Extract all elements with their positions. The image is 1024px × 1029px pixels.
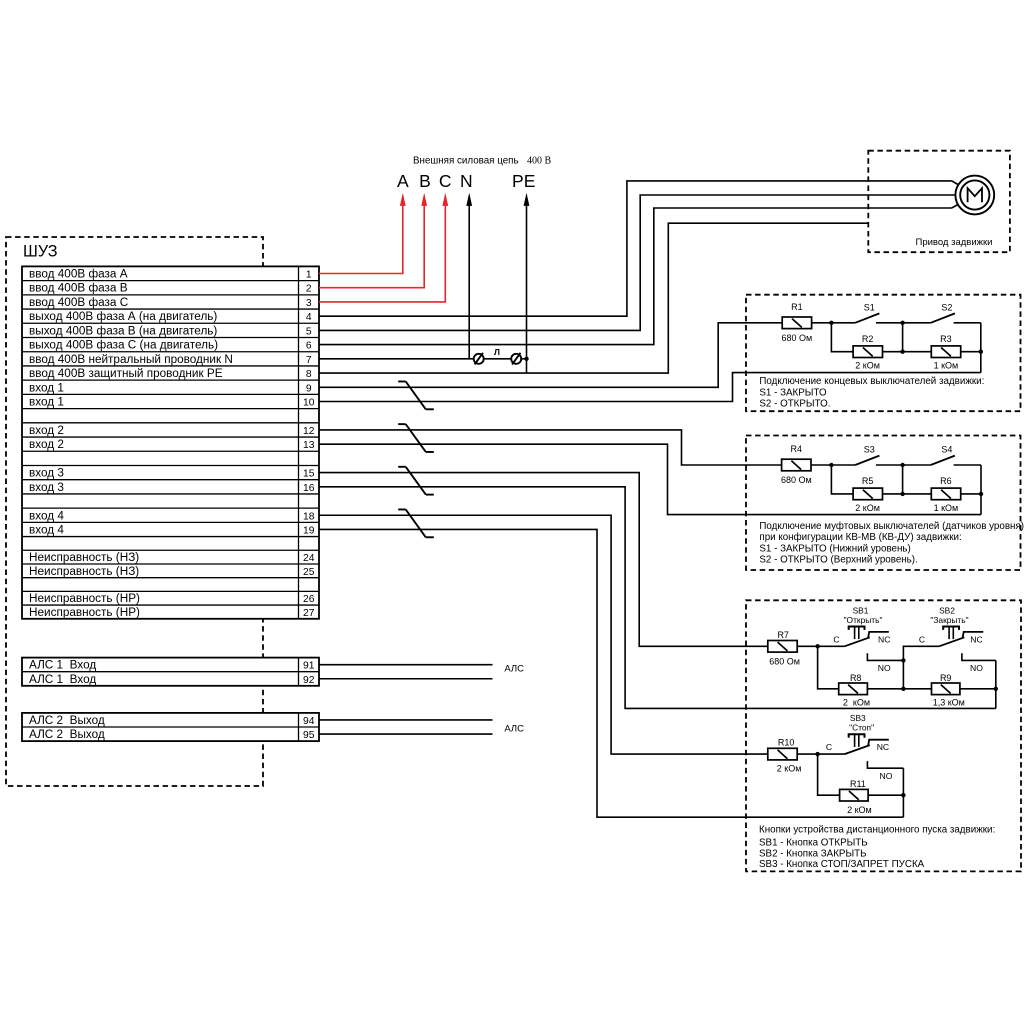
- svg-text:Кнопки устройства дистанционно: Кнопки устройства дистанционного пуска з…: [759, 824, 995, 835]
- svg-text:2: 2: [306, 284, 312, 295]
- svg-text:АЛС: АЛС: [504, 664, 524, 675]
- svg-text:1,3 кОм: 1,3 кОм: [933, 698, 965, 708]
- wire terminal 18 to R10 (stop button circuit supply): [319, 515, 768, 754]
- junction R5 / R6: [900, 492, 904, 496]
- svg-text:2 кОм: 2 кОм: [855, 361, 880, 371]
- svg-text:Привод задвижки: Привод задвижки: [916, 237, 993, 248]
- svg-text:680 Ом: 680 Ом: [782, 333, 813, 343]
- svg-text:R6: R6: [940, 476, 952, 486]
- svg-text:R8: R8: [850, 673, 862, 683]
- svg-text:АЛС 1 Вход: АЛС 1 Вход: [29, 659, 96, 672]
- wire terminal 94 (ALS 2): [319, 719, 493, 721]
- svg-text:вход 1: вход 1: [29, 381, 64, 394]
- svg-text:R9: R9: [940, 673, 952, 683]
- svg-text:680 Ом: 680 Ом: [769, 656, 800, 666]
- wire node2 to R9: [903, 688, 931, 690]
- wire R6 to right rail (box2): [961, 493, 981, 495]
- wire node down to R11: [818, 754, 840, 795]
- wire node2 to R6: [903, 493, 932, 495]
- resistor R10: [768, 748, 797, 760]
- svg-text:Подключение муфтовых выключате: Подключение муфтовых выключателей (датчи…: [759, 521, 1024, 532]
- svg-text:SB3 - Кнопка СТОП/ЗАПРЕТ ПУСКА: SB3 - Кнопка СТОП/ЗАПРЕТ ПУСКА: [759, 859, 925, 870]
- svg-text:9: 9: [306, 383, 312, 394]
- wire R7 to node: [797, 645, 817, 647]
- node2 vertical SB2 feed: [903, 646, 939, 689]
- svg-text:АЛС 2 Выход: АЛС 2 Выход: [29, 728, 105, 741]
- svg-text:NO: NO: [878, 663, 891, 673]
- wire node down to R8: [818, 646, 839, 689]
- svg-text:ввод 400В нейтральный проводни: ввод 400В нейтральный проводник N: [29, 353, 233, 366]
- svg-text:"Открыть": "Открыть": [844, 615, 883, 625]
- svg-text:R1: R1: [791, 302, 803, 312]
- ALS 1 input terminal block, pins 91/92: [22, 658, 319, 686]
- clutch switches dashed box: [746, 436, 1021, 571]
- svg-text:680 Ом: 680 Ом: [781, 475, 812, 485]
- motor drive dashed box (Привод задвижки): [868, 151, 1010, 253]
- svg-text:6: 6: [306, 341, 312, 352]
- svg-text:ввод 400В защитный проводник Р: ввод 400В защитный проводник РЕ: [29, 367, 223, 380]
- wire terminal 9 to R1 (limit switch circuit supply): [319, 323, 782, 387]
- svg-text:24: 24: [303, 553, 315, 564]
- resistor R1: [782, 317, 811, 329]
- wire node to SB1 pivot: [818, 645, 845, 647]
- svg-text:NO: NO: [880, 771, 893, 781]
- resistor R4: [782, 459, 811, 471]
- pushbuttons dashed box: [746, 600, 1021, 871]
- svg-text:91: 91: [303, 661, 315, 672]
- jumper link Л circle contact 2: [511, 354, 521, 364]
- wire R9 to right rail (box3): [960, 688, 996, 690]
- arrow B (external phase B): [421, 193, 427, 206]
- cable marker on pair 15/16: [398, 466, 406, 468]
- wire R1 to node: [812, 322, 832, 324]
- wire terminal 5 to motor (phase B): [319, 195, 955, 330]
- resistor R8: [839, 683, 868, 695]
- svg-text:SB2: SB2: [939, 605, 955, 615]
- wire terminal 91 (ALS 1): [319, 664, 493, 666]
- junction R8 / R9: [901, 687, 905, 691]
- svg-text:2 кОм: 2 кОм: [855, 503, 880, 513]
- svg-text:SB1 - Кнопка ОТКРЫТЬ: SB1 - Кнопка ОТКРЫТЬ: [759, 838, 868, 849]
- arrow N (external neutral): [466, 193, 472, 206]
- wire R10 to node: [797, 753, 817, 755]
- wire node to R2: [831, 323, 853, 352]
- motor M1 (electric motor circles): [955, 176, 994, 215]
- wire terminal 12 to R4 (clutch switch circuit supply): [319, 430, 782, 465]
- svg-text:18: 18: [303, 511, 315, 522]
- switch S3: [831, 464, 855, 466]
- arrow A (external phase A): [400, 193, 406, 206]
- svg-text:NC: NC: [878, 634, 890, 644]
- arrow PE (external protective earth): [524, 193, 530, 206]
- svg-text:АЛС 1 Вход: АЛС 1 Вход: [29, 673, 96, 686]
- right rail of box 1: [980, 323, 982, 373]
- svg-text:N: N: [460, 171, 473, 191]
- arrow C (external phase C): [442, 193, 448, 206]
- wire terminal 6 to motor (phase C): [319, 205, 958, 345]
- svg-text:R2: R2: [862, 334, 874, 344]
- SB3 NO drop to node: [902, 768, 904, 817]
- svg-text:1: 1: [306, 270, 312, 281]
- pushbutton SB3: [845, 745, 870, 754]
- pushbutton SB1: [845, 637, 870, 646]
- svg-text:S2: S2: [941, 302, 952, 312]
- svg-text:R4: R4: [791, 444, 803, 454]
- svg-text:АЛС 2 Выход: АЛС 2 Выход: [29, 714, 105, 727]
- svg-text:27: 27: [303, 608, 315, 619]
- resistor R3: [931, 346, 960, 358]
- svg-text:C: C: [833, 634, 839, 644]
- svg-text:"Закрыть": "Закрыть": [930, 615, 968, 625]
- pushbutton SB2: [939, 637, 964, 646]
- wire R8 to node2: [867, 688, 903, 690]
- resistor R6: [931, 488, 960, 500]
- svg-text:вход 3: вход 3: [29, 481, 64, 494]
- svg-text:вход 4: вход 4: [29, 523, 64, 536]
- right rail SB2 NO to return: [995, 660, 997, 708]
- svg-text:при конфигурации КВ-МВ (КВ-ДУ): при конфигурации КВ-МВ (КВ-ДУ) задвижки:: [759, 532, 961, 543]
- junction S1 contact / S2 feed: [900, 321, 904, 325]
- junction R6 / rail: [979, 492, 983, 496]
- wire node2 to R3: [903, 351, 932, 353]
- junction node after R10: [815, 752, 819, 756]
- junction R2 / R3: [900, 350, 904, 354]
- svg-text:S1: S1: [864, 302, 875, 312]
- jumper link Л circle contact 1: [474, 354, 484, 364]
- svg-text:4: 4: [306, 312, 312, 323]
- svg-text:C: C: [919, 634, 925, 644]
- resistor R9: [932, 683, 960, 695]
- limit switches dashed box: [746, 295, 1021, 412]
- junction SB3 NO / R11 out: [901, 793, 905, 797]
- svg-text:8: 8: [306, 369, 312, 380]
- svg-text:13: 13: [303, 440, 315, 451]
- svg-text:1 кОм: 1 кОм: [934, 361, 959, 371]
- cable marker on pair 18/19: [398, 508, 406, 510]
- svg-text:ввод 400В фаза А: ввод 400В фаза А: [29, 268, 128, 281]
- wire R5 to node 2: [882, 493, 903, 495]
- wire node to R5: [831, 465, 853, 494]
- svg-text:Л: Л: [494, 347, 500, 357]
- svg-text:выход 400В фаза С (на двигател: выход 400В фаза С (на двигатель): [29, 339, 218, 352]
- svg-text:5: 5: [306, 326, 312, 337]
- svg-text:АЛС: АЛС: [504, 724, 524, 735]
- cable marker on pair 9/10: [398, 380, 406, 382]
- wire R3 to right rail: [961, 351, 981, 353]
- wire R4 to node: [811, 464, 831, 466]
- resistor R7: [768, 641, 797, 653]
- wire jumper to PE line: [521, 358, 526, 360]
- svg-text:Неисправность (НР): Неисправность (НР): [29, 606, 140, 619]
- wire terminal 16 return from SB1/SB2 circuit: [319, 487, 996, 709]
- svg-text:выход 400В фаза А (на двигател: выход 400В фаза А (на двигатель): [29, 310, 217, 323]
- svg-text:R7: R7: [777, 630, 789, 640]
- svg-text:19: 19: [303, 525, 315, 536]
- svg-text:3: 3: [306, 298, 312, 309]
- svg-text:S3: S3: [864, 445, 875, 455]
- svg-text:C: C: [439, 171, 452, 191]
- switch S4: [903, 464, 931, 466]
- svg-text:S1 - ЗАКРЫТО (Нижний уровень): S1 - ЗАКРЫТО (Нижний уровень): [759, 544, 910, 555]
- wire terminal 92 (ALS 1): [319, 678, 493, 680]
- svg-text:S4: S4: [941, 445, 952, 455]
- svg-text:Внешняя силовая цепь: Внешняя силовая цепь: [413, 156, 519, 167]
- svg-text:NC: NC: [970, 634, 982, 644]
- svg-text:R3: R3: [940, 334, 952, 344]
- svg-text:NO: NO: [970, 663, 983, 673]
- wire phase C: terminal 3 to external supply: [319, 205, 445, 302]
- svg-text:R11: R11: [850, 779, 866, 789]
- resistor R2: [853, 346, 882, 358]
- svg-text:7: 7: [306, 355, 312, 366]
- resistor R5: [853, 488, 882, 500]
- svg-text:94: 94: [303, 716, 315, 727]
- wire phase A: terminal 1 to external supply: [319, 205, 403, 274]
- svg-text:92: 92: [303, 675, 315, 686]
- svg-text:Неисправность (НР): Неисправность (НР): [29, 592, 140, 605]
- node 2 vertical link: [902, 323, 904, 352]
- svg-text:S2 - ОТКРЫТО.: S2 - ОТКРЫТО.: [759, 398, 830, 409]
- node 2 vertical link (box2): [902, 465, 904, 494]
- junction S3 contact / S4 feed: [900, 463, 904, 467]
- wire R11 to node2 (SB3): [868, 794, 903, 796]
- wire terminal 19 return from SB3 circuit: [319, 529, 903, 817]
- cable marker on pair 12/13: [398, 423, 406, 425]
- wire protective earth PE riser: [526, 205, 528, 374]
- junction node after R4: [829, 463, 833, 467]
- right rail of box 2: [980, 465, 982, 515]
- svg-text:NC: NC: [877, 742, 889, 752]
- svg-text:вход 3: вход 3: [29, 467, 64, 480]
- svg-text:вход 1: вход 1: [29, 395, 64, 408]
- svg-text:2 кОм: 2 кОм: [777, 764, 802, 774]
- junction R3 / rail: [979, 350, 983, 354]
- ALS 2 output terminal block, pins 94/95: [22, 713, 319, 741]
- wire terminal 15 to R7 (pushbutton circuit supply): [319, 473, 768, 647]
- svg-text:R5: R5: [862, 476, 874, 486]
- wire between jumper contacts: [484, 358, 512, 360]
- svg-text:1 кОм: 1 кОм: [934, 503, 959, 513]
- svg-text:400 В: 400 В: [527, 156, 552, 167]
- wire node to SB3 pivot: [818, 753, 845, 755]
- wire neutral N: terminal 7 riser: [468, 205, 470, 359]
- wire phase B: terminal 2 to external supply: [319, 205, 424, 288]
- ShUZ cabinet dashed outline: [6, 237, 263, 786]
- svg-text:вход 2: вход 2: [29, 438, 64, 451]
- svg-text:R10: R10: [778, 738, 795, 748]
- svg-text:вход 4: вход 4: [29, 509, 64, 522]
- svg-text:SB3: SB3: [850, 713, 866, 723]
- svg-text:S2 - ОТКРЫТО (Верхний уровень): S2 - ОТКРЫТО (Верхний уровень).: [759, 555, 917, 566]
- svg-text:вход 2: вход 2: [29, 424, 64, 437]
- svg-text:"Стоп": "Стоп": [849, 723, 874, 733]
- wire terminal 4 to motor (phase A): [319, 181, 958, 316]
- junction node after R1: [829, 321, 833, 325]
- svg-text:выход 400В фаза В (на двигател: выход 400В фаза В (на двигатель): [29, 324, 217, 337]
- svg-text:2 кОм: 2 кОм: [847, 805, 872, 815]
- motor letter M: [968, 188, 982, 202]
- svg-text:ШУЗ: ШУЗ: [23, 243, 58, 261]
- svg-text:12: 12: [303, 426, 315, 437]
- svg-text:B: B: [419, 171, 431, 191]
- svg-text:26: 26: [303, 594, 315, 605]
- resistor R11: [840, 789, 869, 801]
- wire terminal 95 (ALS 2): [319, 733, 493, 735]
- svg-text:S1 - ЗАКРЫТО: S1 - ЗАКРЫТО: [759, 387, 827, 398]
- switch S1: [831, 322, 855, 324]
- svg-text:ввод 400В фаза В: ввод 400В фаза В: [29, 282, 128, 295]
- svg-text:Подключение концевых выключате: Подключение концевых выключателей задвиж…: [759, 376, 984, 387]
- svg-text:C: C: [826, 742, 832, 752]
- svg-text:95: 95: [303, 730, 315, 741]
- svg-text:SB1: SB1: [853, 605, 869, 615]
- junction PE / jumper: [524, 357, 528, 361]
- junction R9 / rail: [994, 687, 998, 691]
- wire terminal 10 return from limit switch circuit: [319, 373, 981, 402]
- svg-text:Неисправность (НЗ): Неисправность (НЗ): [29, 565, 139, 578]
- svg-text:A: A: [397, 171, 409, 191]
- wire terminal 7 to neutral / jumper: [319, 358, 474, 360]
- svg-text:16: 16: [303, 483, 315, 494]
- junction SB1 NO / node2: [901, 658, 905, 662]
- switch S2: [903, 322, 931, 324]
- svg-text:25: 25: [303, 567, 315, 578]
- wire R2 to node 2: [882, 351, 903, 353]
- wire terminal 8 PE to motor enclosure: [319, 223, 868, 373]
- svg-text:Неисправность (НЗ): Неисправность (НЗ): [29, 551, 139, 564]
- junction node after R7: [815, 644, 819, 648]
- svg-text:ввод 400В фаза С: ввод 400В фаза С: [29, 296, 129, 309]
- svg-text:SB2 - Кнопка ЗАКРЫТЬ: SB2 - Кнопка ЗАКРЫТЬ: [759, 848, 867, 859]
- wire terminal 13 return from clutch switch circuit: [319, 444, 981, 514]
- svg-text:PE: PE: [512, 171, 535, 191]
- terminal block table of ShUZ: [22, 266, 319, 618]
- svg-text:2 кОм: 2 кОм: [843, 698, 870, 708]
- svg-text:15: 15: [303, 469, 315, 480]
- svg-text:10: 10: [303, 397, 315, 408]
